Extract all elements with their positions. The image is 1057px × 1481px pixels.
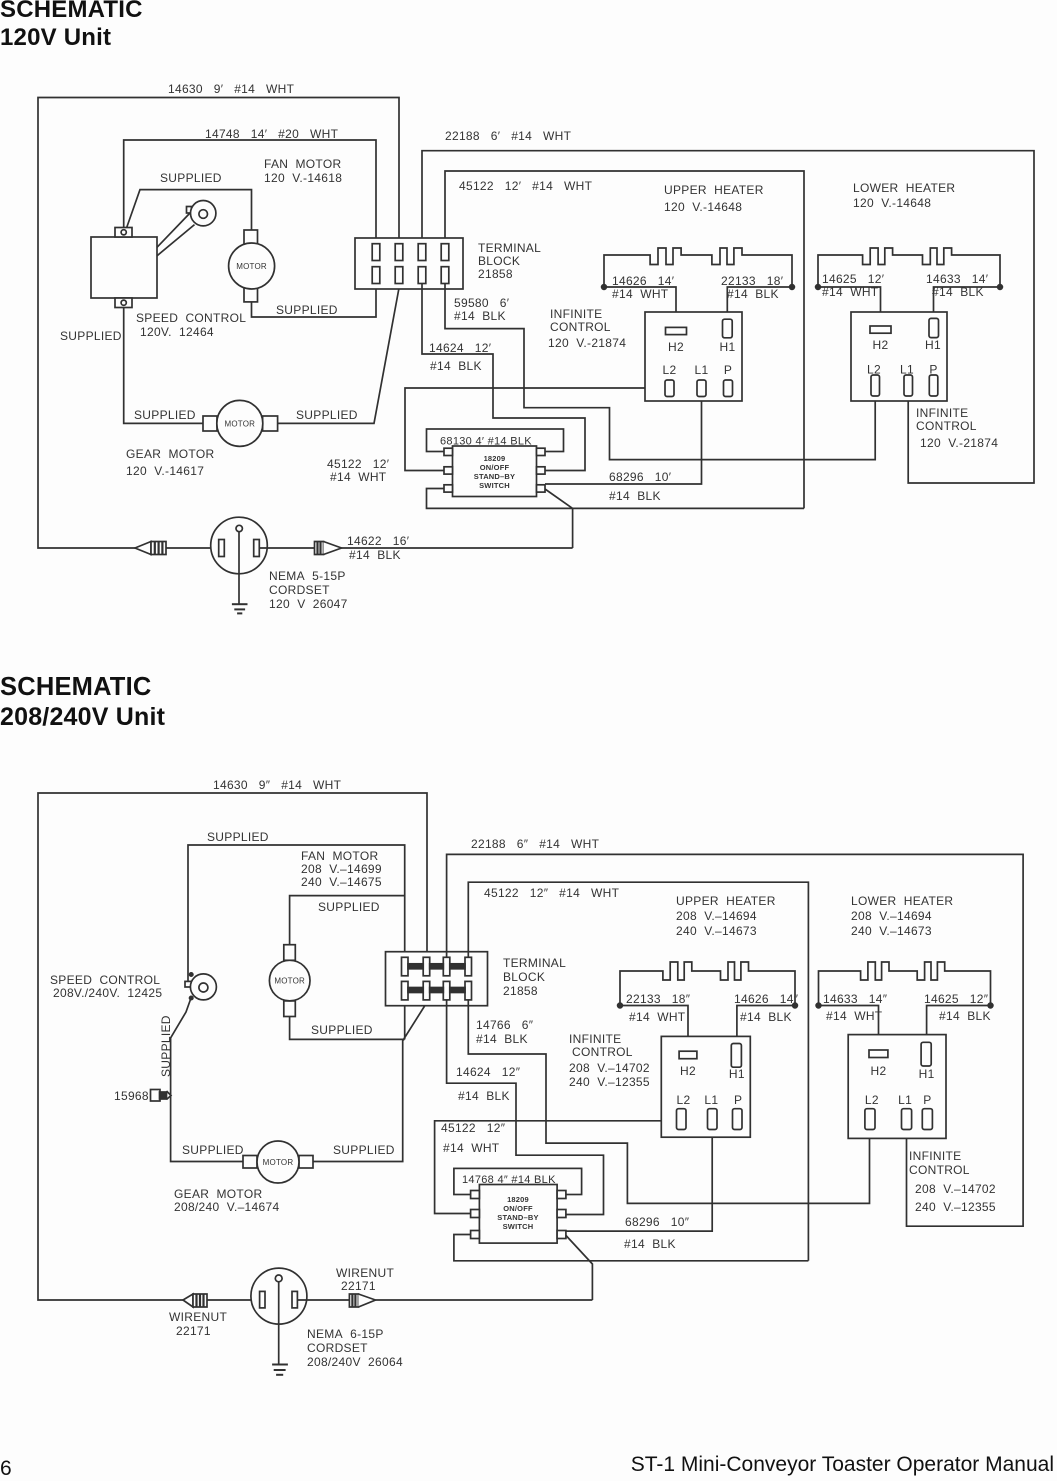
svg-text:STAND–BY: STAND–BY: [497, 1213, 538, 1222]
wire gear motor right to terminal t2 bottom (diagonal): [278, 288, 399, 423]
svg-text:H1: H1: [729, 1067, 745, 1081]
svg-text:22133 18′: 22133 18′: [721, 274, 784, 288]
pin L1 (lower infinite control, 120V): [900, 363, 914, 397]
wire 14748 from speed control top to terminal block t1 (schematic 1): [124, 140, 376, 244]
NEMA 5-15P cordset plug: [211, 517, 268, 603]
svg-text:UPPER HEATER: UPPER HEATER: [676, 894, 776, 908]
switch left tabs (3): [444, 448, 453, 492]
svg-text:45122 12′ #14 WHT: 45122 12′ #14 WHT: [459, 179, 593, 193]
heading schematic 1 line 1: [0, 0, 143, 22]
NEMA 6-15P cordset plug: [251, 1268, 307, 1363]
footer manual title: [631, 1453, 1054, 1477]
svg-text:P: P: [724, 363, 732, 377]
svg-text:14626 14′: 14626 14′: [612, 274, 675, 288]
wire 14633 heater right end to H1 (lower): [934, 287, 1001, 318]
svg-text:INFINITE: INFINITE: [550, 307, 602, 321]
svg-text:18209: 18209: [484, 454, 506, 463]
svg-text:SUPPLIED: SUPPLIED: [333, 1143, 395, 1157]
svg-text:59580 6′: 59580 6′: [454, 296, 510, 310]
wire fan motor bottom to loop right: [290, 1017, 405, 1040]
svg-text:208 V.–14694: 208 V.–14694: [676, 909, 757, 923]
speed control sensor circle (schematic 2): [185, 973, 216, 1000]
svg-text:14626 14″: 14626 14″: [734, 992, 799, 1006]
fan start relay small circle: [157, 201, 216, 256]
svg-text:14624 12′: 14624 12′: [429, 341, 492, 355]
svg-text:14630 9′ #14 WHT: 14630 9′ #14 WHT: [168, 82, 295, 96]
svg-text:WIRENUT: WIRENUT: [169, 1310, 227, 1324]
switch right tabs (3): [537, 448, 546, 492]
svg-text:BLOCK: BLOCK: [478, 254, 520, 268]
terminal block bottom row terminals 1-4: [372, 267, 449, 284]
wire 14625 heater left end to H2 (lower): [818, 287, 881, 326]
wire switch bottom-right tab to cordset junction: [545, 489, 573, 548]
pin H2 (upper infinite control, 208/240V): [679, 1051, 697, 1078]
svg-text:SUPPLIED: SUPPLIED: [159, 1015, 173, 1077]
svg-text:#14 BLK: #14 BLK: [624, 1237, 676, 1251]
wire plug right slot to wirenut right: [259, 547, 314, 549]
upper heater element 120 V.-14648: [602, 248, 795, 289]
wire 45122 box from t4 top around to bottom junction: [445, 171, 804, 508]
svg-text:14766 6″: 14766 6″: [476, 1018, 534, 1032]
svg-text:208 V.–14702: 208 V.–14702: [569, 1061, 650, 1075]
svg-text:22171: 22171: [341, 1279, 376, 1293]
svg-text:14630 9″ #14 WHT: 14630 9″ #14 WHT: [213, 778, 342, 792]
wire wirenut right to switch junction: [376, 1299, 593, 1301]
svg-text:STAND–BY: STAND–BY: [474, 472, 515, 481]
wire wirenut to plug left slot: [166, 547, 219, 549]
wire gear motor right to TB2 via diagonal: [313, 1003, 427, 1162]
on/off stand-by switch 18209 (schematic 1): [444, 446, 545, 497]
svg-text:14633 14″: 14633 14″: [823, 992, 888, 1006]
svg-text:CORDSET: CORDSET: [307, 1341, 368, 1355]
svg-text:18209: 18209: [507, 1195, 529, 1204]
svg-text:P: P: [734, 1093, 742, 1107]
svg-text:#14 BLK: #14 BLK: [609, 489, 661, 503]
svg-text:208 V.–14702: 208 V.–14702: [915, 1182, 996, 1196]
wire 22188 from t3 top around right side to lower infinite control L1: [422, 151, 1034, 483]
svg-text:L2: L2: [865, 1093, 879, 1107]
svg-text:LOWER HEATER: LOWER HEATER: [853, 181, 955, 195]
lower heater element 120 V.-14648: [816, 248, 1003, 289]
svg-text:21858: 21858: [503, 984, 538, 998]
pin H2 (lower infinite control, 120V): [870, 326, 891, 352]
svg-text:#14 BLK: #14 BLK: [454, 309, 506, 323]
wire 22188 from TB2 around right side to lower infinite control L1: [447, 854, 1024, 1226]
svg-text:GEAR MOTOR: GEAR MOTOR: [174, 1187, 262, 1201]
heading schematic 2 line 2: [0, 705, 165, 730]
svg-text:120 V.-14617: 120 V.-14617: [126, 464, 204, 478]
svg-text:MOTOR: MOTOR: [236, 262, 267, 271]
svg-text:FAN MOTOR: FAN MOTOR: [264, 157, 341, 171]
svg-text:14748 14′ #20 WHT: 14748 14′ #20 WHT: [205, 127, 339, 141]
svg-text:#14 WHT: #14 WHT: [330, 470, 387, 484]
svg-text:L1: L1: [898, 1093, 912, 1107]
wire 14630 top wire + left side down to cordset (schematic 1): [38, 98, 399, 549]
svg-text:68296 10″: 68296 10″: [625, 1215, 690, 1229]
wire 68130 jumper loop around label (switch top tabs): [427, 429, 564, 452]
pin P (upper infinite control, 208/240V): [733, 1093, 743, 1130]
switch right tabs (3): [557, 1191, 566, 1239]
svg-text:68296 10′: 68296 10′: [609, 470, 672, 484]
wire fan motor top to loop right: [290, 896, 405, 945]
svg-text:SWITCH: SWITCH: [479, 481, 510, 490]
svg-text:240 V.–12355: 240 V.–12355: [569, 1075, 650, 1089]
svg-text:120 V.-14648: 120 V.-14648: [664, 200, 742, 214]
svg-text:120 V.-21874: 120 V.-21874: [920, 436, 998, 450]
svg-text:208/240V 26064: 208/240V 26064: [307, 1355, 403, 1369]
svg-text:L2: L2: [663, 363, 677, 377]
svg-text:#14 BLK: #14 BLK: [727, 287, 779, 301]
speed control (120V. 12464): [91, 228, 157, 308]
svg-text:#14 BLK: #14 BLK: [932, 285, 984, 299]
svg-text:22171: 22171: [176, 1324, 211, 1338]
svg-text:ON/OFF: ON/OFF: [480, 463, 510, 472]
wire switch bottom-left tab to junction under 45122 box: [427, 489, 805, 509]
terminal block 21858 (schematic 1): [355, 238, 463, 289]
svg-text:21858: 21858: [478, 267, 513, 281]
wire plug right slot to wirenut right (schematic 2): [297, 1299, 349, 1301]
footer page number: [0, 1457, 12, 1481]
svg-text:45122 12′: 45122 12′: [327, 457, 390, 471]
svg-text:240 V.–14673: 240 V.–14673: [676, 924, 757, 938]
svg-text:45122 12″: 45122 12″: [441, 1121, 506, 1135]
svg-text:INFINITE: INFINITE: [909, 1149, 961, 1163]
svg-text:H1: H1: [919, 1067, 935, 1081]
wirenut left (schematic 1): [135, 542, 166, 555]
svg-text:L1: L1: [695, 363, 709, 377]
fan motor (schematic 2): [269, 945, 310, 1017]
wire switch bottom-left tab to 45122 box bottom: [454, 1235, 809, 1261]
wire 14622 cordset to switch (right): [342, 547, 573, 549]
gear motor (120 V.-14617): [203, 400, 278, 446]
svg-text:#14 WHT: #14 WHT: [443, 1141, 500, 1155]
wirenut right (schematic 1): [315, 542, 342, 555]
svg-text:NEMA 5-15P: NEMA 5-15P: [269, 569, 346, 583]
wire 22133 heater left end to H2 (upper, schematic 2): [620, 1006, 688, 1052]
svg-text:CONTROL: CONTROL: [916, 419, 977, 433]
pin L2 (lower infinite control, 120V): [867, 363, 881, 397]
svg-text:#14 BLK: #14 BLK: [349, 548, 401, 562]
svg-text:ON/OFF: ON/OFF: [503, 1204, 533, 1213]
svg-text:INFINITE: INFINITE: [916, 406, 968, 420]
component 15968: [151, 1090, 172, 1102]
svg-text:TERMINAL: TERMINAL: [478, 241, 541, 255]
wire 45122 from switch left-middle tab to upper infinite control L2: [435, 1121, 679, 1214]
svg-text:208V./240V. 12425: 208V./240V. 12425: [53, 986, 162, 1000]
heading schematic 1 line 2: [0, 26, 111, 50]
svg-text:208 V.–14699: 208 V.–14699: [301, 862, 382, 876]
svg-text:#14 WHT: #14 WHT: [629, 1010, 686, 1024]
svg-text:120 V.-21874: 120 V.-21874: [548, 336, 626, 350]
wire speed control bottom to gear motor left (SUPPLIED left): [124, 308, 217, 424]
pin L1 (upper infinite control, 120V): [695, 363, 709, 397]
svg-text:UPPER HEATER: UPPER HEATER: [664, 183, 764, 197]
svg-text:FAN MOTOR: FAN MOTOR: [301, 849, 378, 863]
wire 22133 heater right end to H1: [727, 287, 792, 319]
svg-text:L2: L2: [677, 1093, 691, 1107]
svg-text:14622 16′: 14622 16′: [347, 534, 410, 548]
wire 14768 jumper loop around label (switch top tabs): [454, 1168, 582, 1194]
upper infinite control 120 V.-21874: [645, 312, 742, 401]
ground symbol (schematic 1): [232, 604, 248, 613]
svg-text:15968: 15968: [114, 1089, 149, 1103]
svg-text:SUPPLIED: SUPPLIED: [276, 303, 338, 317]
terminal block top row terminals with jumper bars: [402, 957, 472, 976]
svg-text:H2: H2: [873, 338, 889, 352]
svg-text:#14 BLK: #14 BLK: [939, 1009, 991, 1023]
wire 59580 from t4 bottom to lower infinite control L2: [445, 284, 875, 460]
svg-text:14633 14′: 14633 14′: [926, 272, 989, 286]
svg-text:H2: H2: [680, 1064, 696, 1078]
wire fan motor bottom to terminal t1 bottom (SUPPLIED): [252, 284, 377, 318]
svg-text:#14 WHT: #14 WHT: [612, 287, 669, 301]
svg-text:22133 18″: 22133 18″: [626, 992, 691, 1006]
svg-text:BLOCK: BLOCK: [503, 970, 545, 984]
pin P (upper infinite control, 120V): [724, 363, 733, 397]
wire from upper infinite control L2 to switch left-middle tab: [405, 388, 665, 471]
svg-text:208 V.–14694: 208 V.–14694: [851, 909, 932, 923]
svg-text:H1: H1: [925, 338, 941, 352]
wire fan loop top (SUPPLIED) and right side: [188, 845, 405, 1039]
ground symbol (schematic 2): [272, 1365, 288, 1375]
wire 14630 top wire + left side down to cordset (schematic 2): [38, 793, 427, 1300]
pin H1 (lower infinite control, 208/240V): [919, 1042, 935, 1081]
svg-text:45122 12″ #14 WHT: 45122 12″ #14 WHT: [484, 886, 620, 900]
svg-text:SPEED CONTROL: SPEED CONTROL: [136, 311, 246, 325]
wire 14624 from TB2 rect3 bottom to switch right-middle tab: [447, 1000, 604, 1215]
svg-text:MOTOR: MOTOR: [224, 419, 255, 428]
on/off stand-by switch 18209 (schematic 2): [471, 1185, 566, 1244]
gear motor (schematic 2): [243, 1141, 313, 1183]
svg-text:P: P: [923, 1093, 931, 1107]
svg-text:240 V.–14673: 240 V.–14673: [851, 924, 932, 938]
svg-text:SUPPLIED: SUPPLIED: [296, 408, 358, 422]
svg-text:GEAR MOTOR: GEAR MOTOR: [126, 447, 214, 461]
upper heater element (schematic 2): [618, 962, 798, 1008]
svg-text:MOTOR: MOTOR: [263, 1158, 294, 1167]
svg-text:SUPPLIED: SUPPLIED: [182, 1143, 244, 1157]
pin H1 (upper infinite control, 120V): [720, 319, 736, 354]
svg-text:CONTROL: CONTROL: [909, 1163, 970, 1177]
wire 14626 heater right end to H1 (upper, schematic 2): [737, 1006, 795, 1044]
pin H2 (lower infinite control, 208/240V): [869, 1050, 888, 1078]
wire speed control top to fan motor top (SUPPLIED): [127, 190, 252, 230]
svg-text:SPEED CONTROL: SPEED CONTROL: [50, 973, 160, 987]
svg-text:240 V.–12355: 240 V.–12355: [915, 1200, 996, 1214]
upper infinite control (schematic 2): [661, 1036, 750, 1137]
wirenut left (schematic 2): [183, 1294, 207, 1307]
svg-text:14625 12′: 14625 12′: [822, 272, 885, 286]
svg-text:CONTROL: CONTROL: [550, 320, 611, 334]
svg-text:H1: H1: [720, 340, 736, 354]
heading schematic 2 line 1: [0, 675, 152, 701]
svg-text:#14 BLK: #14 BLK: [476, 1032, 528, 1046]
pin L1 (lower infinite control, 208/240V): [898, 1093, 912, 1130]
svg-text:#14 BLK: #14 BLK: [740, 1010, 792, 1024]
svg-text:WIRENUT: WIRENUT: [336, 1266, 394, 1280]
svg-text:LOWER HEATER: LOWER HEATER: [851, 894, 953, 908]
svg-text:#14 BLK: #14 BLK: [430, 359, 482, 373]
svg-text:SWITCH: SWITCH: [503, 1222, 534, 1231]
pin H1 (lower infinite control, 120V): [925, 318, 941, 352]
lower infinite control (schematic 2): [848, 1035, 946, 1139]
pin H2 (upper infinite control, 120V): [666, 327, 687, 354]
wire 68296 from upper infinite control L1 to switch bottom-right tab: [545, 397, 702, 485]
svg-text:SUPPLIED: SUPPLIED: [318, 900, 380, 914]
terminal block bottom row terminals with jumper bars: [402, 981, 472, 1000]
wirenut right (schematic 2): [349, 1294, 375, 1307]
switch left tabs (3): [471, 1191, 480, 1239]
svg-text:120V. 12464: 120V. 12464: [140, 325, 214, 339]
svg-text:14625 12″: 14625 12″: [924, 992, 989, 1006]
pin P (lower infinite control, 208/240V): [922, 1093, 932, 1130]
wire speed control circle down to gear motor left (zigzag): [171, 998, 243, 1162]
svg-text:INFINITE: INFINITE: [569, 1032, 621, 1046]
wire 14633 heater left end to H2 (lower, schematic 2): [819, 1006, 879, 1051]
svg-text:H2: H2: [871, 1064, 887, 1078]
wire switch bottom-right tab to cordset junction: [566, 1236, 592, 1301]
terminal block top row terminals 1-4: [372, 244, 449, 261]
wire 14625 heater right end to H1 (lower, schematic 2): [927, 1006, 991, 1043]
svg-text:SUPPLIED: SUPPLIED: [60, 329, 122, 343]
svg-text:#14 BLK: #14 BLK: [458, 1089, 510, 1103]
svg-text:14624 12″: 14624 12″: [456, 1065, 521, 1079]
svg-text:SUPPLIED: SUPPLIED: [160, 171, 222, 185]
terminal block 21858 (schematic 2): [386, 952, 488, 1006]
fan motor (120 V.-14618): [229, 230, 275, 302]
svg-text:22188 6″ #14 WHT: 22188 6″ #14 WHT: [471, 837, 600, 851]
svg-text:NEMA 6-15P: NEMA 6-15P: [307, 1327, 384, 1341]
wire wirenut to plug left slot (schematic 2): [207, 1299, 260, 1301]
svg-text:CORDSET: CORDSET: [269, 583, 330, 597]
svg-text:MOTOR: MOTOR: [274, 977, 305, 986]
wire 45122 box from TB2 rect4 top around right to switch bottom wire: [468, 882, 808, 1261]
lower infinite control 120 V.-21874: [851, 312, 947, 401]
wire 14766 from TB2 rect4 bottom to lower infinite control L2: [468, 1000, 869, 1203]
svg-text:L1: L1: [704, 1093, 718, 1107]
wire 14626 heater left end to H2: [604, 287, 676, 327]
svg-text:120 V.-14618: 120 V.-14618: [264, 171, 342, 185]
svg-text:208/240 V.–14674: 208/240 V.–14674: [174, 1200, 279, 1214]
pin L2 (upper infinite control, 208/240V): [677, 1093, 691, 1130]
lower heater element (schematic 2): [816, 962, 993, 1008]
svg-text:240 V.–14675: 240 V.–14675: [301, 875, 382, 889]
svg-text:H2: H2: [668, 340, 684, 354]
svg-text:SUPPLIED: SUPPLIED: [134, 408, 196, 422]
svg-text:#14 WHT: #14 WHT: [822, 285, 879, 299]
pin H1 (upper infinite control, 208/240V): [729, 1044, 745, 1082]
svg-text:SUPPLIED: SUPPLIED: [207, 830, 269, 844]
wire 68296 from upper infinite control L1 to switch bottom-right tab: [566, 1130, 712, 1231]
svg-text:CONTROL: CONTROL: [572, 1045, 633, 1059]
pin L2 (upper infinite control, 120V): [663, 363, 677, 397]
pin P (lower infinite control, 120V): [929, 363, 938, 397]
svg-text:TERMINAL: TERMINAL: [503, 956, 566, 970]
svg-text:22188 6′ #14 WHT: 22188 6′ #14 WHT: [445, 129, 572, 143]
pin L1 (upper infinite control, 208/240V): [704, 1093, 718, 1130]
wire 14624 from t3 bottom to switch right-middle tab: [422, 284, 585, 471]
svg-text:120 V 26047: 120 V 26047: [269, 597, 348, 611]
svg-text:SUPPLIED: SUPPLIED: [311, 1023, 373, 1037]
svg-text:120 V.-14648: 120 V.-14648: [853, 196, 931, 210]
svg-text:#14 WHT: #14 WHT: [826, 1009, 883, 1023]
pin L2 (lower infinite control, 208/240V): [865, 1093, 879, 1130]
